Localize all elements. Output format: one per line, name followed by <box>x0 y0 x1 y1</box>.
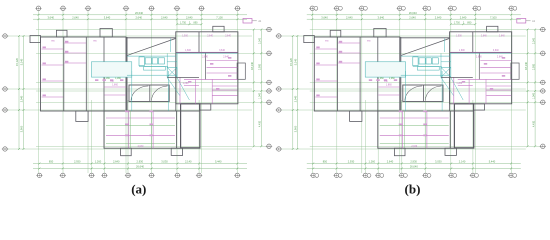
svg-text:(a): (a) <box>131 182 146 197</box>
svg-text:(b): (b) <box>405 182 421 197</box>
